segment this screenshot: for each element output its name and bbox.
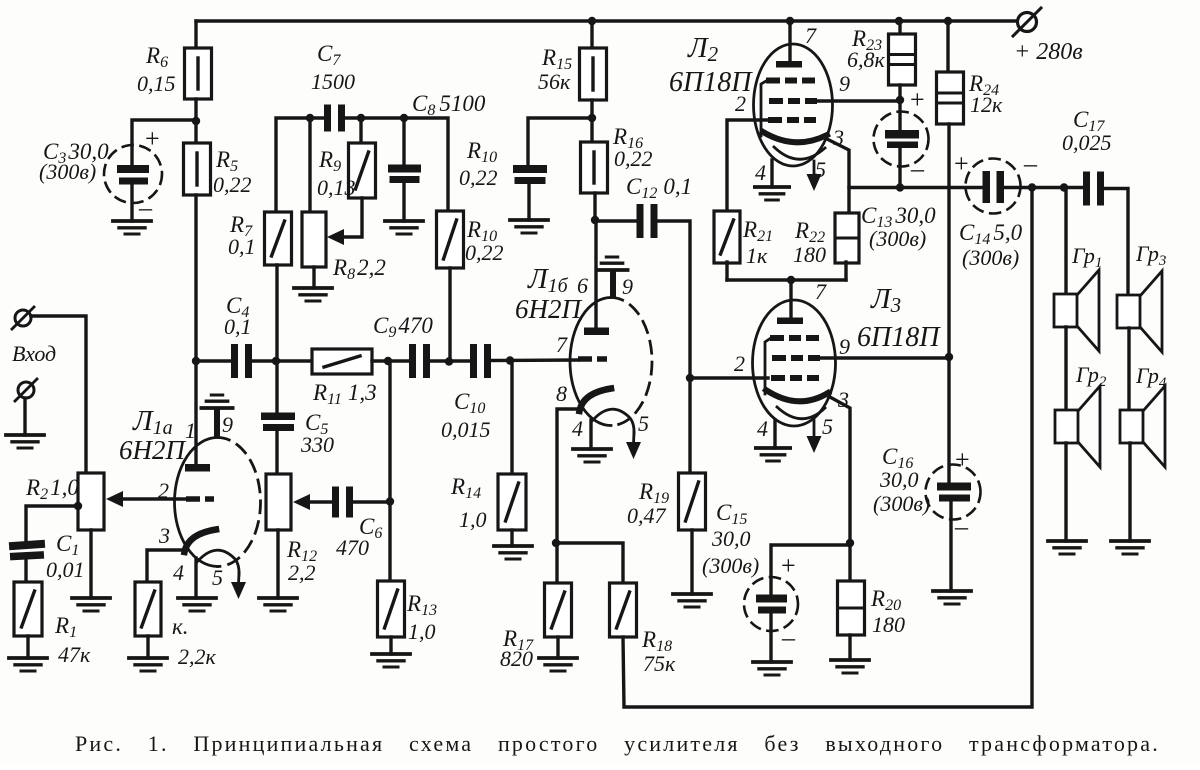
ground R19: [673, 594, 711, 607]
wire R3 to ground: [146, 636, 149, 658]
resistor R1: [14, 582, 42, 636]
capacitor C9: [409, 344, 430, 378]
ground C8: [385, 221, 423, 234]
L1b shield bar: [610, 271, 616, 298]
L1b heater arrow: [626, 432, 641, 459]
L3 heater: [777, 407, 825, 419]
svg-text:6П18П: 6П18П: [857, 322, 941, 353]
svg-text:75к: 75к: [643, 651, 676, 676]
L1b grid dashes: [578, 356, 607, 362]
wire node to R17: [555, 543, 558, 583]
svg-text:5: 5: [212, 565, 223, 590]
ground C16: [933, 591, 971, 604]
svg-text:3: 3: [837, 387, 849, 412]
L1b heater: [592, 409, 634, 434]
svg-text:0,1: 0,1: [228, 234, 256, 259]
wire R1 to ground: [26, 636, 29, 658]
resistor R24: [937, 72, 964, 124]
node rail R23: [895, 17, 903, 25]
svg-text:4: 4: [755, 160, 766, 185]
svg-text:4: 4: [173, 560, 184, 585]
wire L3 anode bus: [727, 278, 846, 281]
resistor R10a: [437, 211, 464, 268]
ground R8: [294, 288, 332, 301]
resistor R5: [184, 143, 211, 195]
wire L3 cathode to R20 node: [828, 396, 850, 544]
L3 grid g3 dashes: [770, 335, 819, 341]
svg-text:(300в): (300в): [869, 226, 926, 251]
resistor R7: [265, 212, 292, 265]
svg-text:2: 2: [734, 351, 745, 376]
arrow R2 wiper: [106, 491, 123, 507]
wire C8 to ground: [402, 183, 405, 221]
ground R12: [259, 598, 297, 611]
ground L1b shield: [596, 257, 627, 270]
wire node to R18: [556, 543, 623, 583]
wire rail to R24: [946, 21, 949, 73]
svg-text:7: 7: [815, 279, 827, 304]
svg-text:820: 820: [500, 646, 533, 671]
svg-text:0,22: 0,22: [213, 172, 252, 197]
wire C10 to L1b grid: [491, 358, 578, 362]
ground R1: [9, 658, 47, 671]
wire R9 to R8 wiper: [344, 198, 362, 237]
svg-text:7: 7: [556, 332, 568, 357]
resistor R14: [498, 474, 526, 530]
ground R17: [539, 658, 577, 671]
resistor R3: [135, 582, 161, 636]
wire R14 to ground: [510, 530, 513, 546]
wire L2 grid to R21: [727, 120, 768, 212]
wire Gr1 drop: [1064, 188, 1067, 294]
capacitor C4: [231, 344, 252, 378]
wire rail to R23: [898, 21, 901, 35]
svg-text:5: 5: [638, 411, 649, 436]
L3 grid g1 dashes: [771, 375, 819, 381]
svg-text:+: +: [781, 551, 796, 580]
node R2 left tap: [74, 502, 82, 510]
L2 grid g2 dashes: [769, 98, 817, 104]
wire R6 to R5: [194, 99, 197, 144]
wire to L3 grid: [690, 376, 768, 379]
svg-text:C85100: C85100: [412, 91, 486, 119]
svg-text:6Н2П: 6Н2П: [119, 435, 186, 465]
wire R2 to ground: [89, 530, 92, 598]
L1a heater: [197, 550, 239, 575]
wire Gr2 to ground: [1064, 443, 1067, 541]
L1a pin 4 lead: [194, 558, 197, 598]
svg-text:–: –: [954, 512, 969, 541]
svg-text:8: 8: [556, 381, 567, 406]
resistor R13: [378, 581, 405, 637]
capacitor C16 circle: [926, 465, 981, 520]
svg-text:–: –: [1023, 149, 1038, 178]
svg-text:4: 4: [757, 416, 768, 441]
capacitor C14 circle: [966, 159, 1021, 214]
svg-text:1к: 1к: [746, 243, 768, 268]
node main wire tap: [192, 357, 200, 365]
wire node to R20: [848, 543, 851, 582]
wire anode node to C12: [595, 219, 638, 222]
wire feedback bottom: [623, 188, 1032, 707]
svg-text:+: +: [954, 149, 969, 178]
wire C13 to output: [898, 148, 901, 188]
svg-text:(300в): (300в): [702, 553, 759, 578]
svg-text:0,15: 0,15: [137, 71, 176, 96]
L1a anode: [185, 464, 210, 472]
wire C9 to C10: [430, 359, 472, 362]
resistor R19: [679, 473, 706, 530]
svg-text:Вход: Вход: [12, 341, 56, 366]
svg-text:C9470: C9470: [373, 313, 433, 341]
svg-text:0,22: 0,22: [465, 240, 504, 265]
wire R12 to ground: [276, 530, 279, 598]
svg-text:0,025: 0,025: [1062, 130, 1112, 155]
capacitor C6: [332, 487, 353, 518]
wire screen node to C16: [947, 358, 950, 484]
wire +280V top rail: [196, 19, 1017, 22]
svg-text:0,13: 0,13: [317, 175, 356, 200]
svg-text:3: 3: [832, 125, 844, 150]
capacitor C10: [470, 344, 491, 378]
svg-text:+: +: [145, 124, 160, 153]
ground input: [6, 435, 44, 448]
resistor R20: [838, 581, 865, 635]
svg-text:Рис. 1. Принципиальная схема: Рис. 1. Принципиальная схема простого ус…: [75, 731, 1160, 756]
L1a cathode: [185, 530, 217, 553]
node L1b anode: [591, 216, 599, 224]
speaker Gr4: [1120, 386, 1165, 467]
node R8 tap: [306, 114, 314, 122]
wire C12 to L3 grid line: [657, 221, 690, 473]
wire L3 screen to R24 line: [820, 356, 949, 359]
wire input to R2: [31, 316, 86, 474]
resistor R8 (preset): [302, 212, 326, 267]
L1a grid dashes: [186, 496, 214, 502]
capacitor C5 plates: [261, 413, 295, 432]
wire R16 to anode node: [593, 193, 596, 222]
resistor R6: [185, 48, 212, 99]
resistor R15: [580, 48, 607, 100]
wire R13 to ground: [389, 637, 392, 654]
ground Gr4: [1111, 541, 1149, 554]
node R11/R13: [384, 357, 392, 365]
wire R10a to main wire: [448, 268, 451, 362]
resistor R16: [581, 142, 608, 193]
wire C1 to R1: [24, 559, 27, 583]
wire C15 to ground: [769, 614, 772, 662]
wire C17 to Gr3: [1104, 189, 1128, 296]
wire C16 to ground: [949, 502, 952, 591]
capacitor C3 circle: [104, 145, 162, 203]
L3 anode: [777, 318, 803, 325]
svg-text:30,0: 30,0: [879, 467, 919, 492]
wire C6 to R13 line: [352, 500, 390, 503]
resistor R18: [610, 583, 637, 637]
capacitor C12: [637, 204, 658, 238]
svg-text:–: –: [138, 193, 153, 222]
wire C6 to R12 wiper: [310, 500, 333, 503]
wire terminal 2 to ground: [23, 398, 26, 435]
capacitor C14 plates: [983, 171, 1005, 203]
wire R24 to L3 screen node: [947, 124, 950, 358]
L1a heater arrow: [231, 573, 246, 599]
svg-text:180: 180: [793, 242, 826, 267]
node output C13: [896, 183, 904, 191]
capacitor C8 plates: [388, 165, 421, 184]
node C8 tap: [400, 114, 408, 122]
wire node to C5: [275, 361, 278, 414]
wire R15 to R16: [590, 100, 593, 143]
node L1b cathode/R17/R18: [552, 539, 560, 547]
wire top rail to R6: [194, 21, 197, 49]
wire L2 cathode to C14: [849, 186, 984, 189]
tube L1b envelope: [570, 298, 652, 426]
svg-text:2,2: 2,2: [288, 560, 316, 585]
capacitor C1: [9, 540, 45, 561]
ground R3: [129, 658, 167, 671]
tube L2 envelope: [754, 44, 833, 166]
wire R23 to C13: [898, 85, 901, 131]
wire C14 to C17: [1004, 186, 1084, 189]
wire L2 screen to R23 node: [816, 99, 899, 102]
svg-text:6Н2П: 6Н2П: [515, 294, 582, 324]
wire R9 top lead: [359, 118, 362, 144]
wire R15 node to bypass cap: [528, 118, 592, 166]
node rail L2 anode: [786, 17, 794, 25]
potentiometer R2: [78, 473, 104, 530]
wire R2 to C1: [26, 506, 78, 542]
wire L1a cathode lead: [147, 550, 185, 582]
svg-text:1,0: 1,0: [459, 507, 487, 532]
wire C4 to R11: [252, 359, 313, 362]
svg-text:0,47: 0,47: [627, 503, 667, 528]
svg-text:–: –: [910, 154, 925, 183]
capacitor C13 circle: [874, 112, 929, 167]
L1b cathode: [580, 389, 612, 412]
L1b pin 4 lead: [589, 420, 592, 449]
resistor R11: [312, 349, 372, 374]
wire R22 to bus: [844, 262, 847, 280]
wire R19 to ground: [690, 530, 693, 594]
ground R2: [72, 598, 110, 611]
node R6/R5/C3: [192, 117, 200, 125]
svg-text:0,1: 0,1: [224, 314, 252, 339]
svg-text:1: 1: [185, 418, 196, 443]
wire anode node to C4: [196, 359, 232, 362]
svg-text:(300в): (300в): [873, 491, 930, 516]
svg-text:2: 2: [735, 91, 746, 116]
wire R8 top lead: [308, 118, 311, 212]
ground Gr2: [1048, 541, 1086, 554]
resistor R9: [349, 143, 376, 198]
ground R20: [831, 660, 869, 673]
wire R11 to C9: [372, 359, 411, 362]
wire anode node to L1b anode: [594, 222, 597, 329]
svg-text:180: 180: [872, 612, 905, 637]
svg-text:(300в): (300в): [962, 245, 1019, 270]
svg-text:9: 9: [622, 274, 633, 299]
L2 heater arrow: [807, 161, 822, 191]
wire R5 to L1a anode: [194, 195, 197, 464]
ground L1b pin4: [573, 449, 611, 462]
resistor R21: [714, 211, 740, 263]
capacitor C17: [1083, 172, 1104, 206]
resistor R23: [889, 34, 916, 85]
wire C15 to cathode node: [771, 545, 850, 596]
wire C3 to ground: [130, 184, 133, 221]
svg-text:0,22: 0,22: [614, 146, 653, 171]
wire Gr1 to Gr2: [1064, 327, 1067, 410]
svg-text:7: 7: [805, 23, 817, 48]
wire rail to R15: [590, 21, 593, 49]
node C6/R13: [386, 497, 394, 505]
svg-text:3: 3: [158, 523, 170, 548]
L1a shield bar: [214, 409, 220, 437]
ground bypass cap: [510, 220, 548, 233]
capacitor C15 circle: [744, 577, 798, 631]
wire feedback bus left: [276, 118, 325, 212]
wire L1a grid to R2 wiper: [112, 497, 186, 500]
L2 grid g3 dashes: [766, 78, 815, 84]
wire R21 to L3 anode bus: [725, 262, 728, 280]
svg-text:9: 9: [222, 412, 233, 437]
wire R11 node to R13: [388, 361, 391, 582]
capacitor C16 plates: [937, 483, 971, 502]
tube L1a envelope: [174, 438, 260, 567]
speaker Gr3: [1117, 271, 1162, 352]
svg-text:12к: 12к: [970, 92, 1003, 117]
resistor R22: [835, 213, 859, 263]
L2 heater: [774, 147, 825, 159]
input terminal 1: [12, 307, 34, 329]
svg-text:56к: 56к: [538, 69, 571, 94]
ground L1a pin4: [178, 598, 216, 611]
wire rail to L2 anode: [788, 21, 791, 62]
wire Gr4 to ground: [1128, 443, 1131, 541]
svg-text:9: 9: [839, 334, 850, 359]
ground C3: [113, 221, 151, 234]
wire Gr3 to Gr4: [1127, 328, 1130, 410]
wire feedback bus right: [345, 118, 448, 211]
wire node to R14: [510, 360, 513, 475]
input terminal 2: [15, 379, 37, 401]
potentiometer R12: [266, 474, 291, 530]
node C4/R7/C5: [272, 357, 280, 365]
L2 pin 4 lead: [770, 160, 773, 187]
node R9 tap: [357, 114, 365, 122]
svg-text:5: 5: [822, 414, 833, 439]
ground L3 pin4: [756, 448, 790, 461]
capacitor C7: [324, 105, 345, 132]
capacitor C3 plates: [117, 165, 149, 185]
L3 g3-cathode strap: [765, 338, 771, 394]
L3 cathode: [766, 390, 828, 401]
svg-text:9: 9: [839, 71, 850, 96]
wire R20 to ground: [848, 635, 851, 660]
ground L2 pin4: [755, 187, 789, 200]
svg-text:0,015: 0,015: [441, 417, 491, 442]
svg-text:47к: 47к: [58, 642, 91, 667]
svg-text:1,0: 1,0: [408, 619, 436, 644]
svg-text:2,2к: 2,2к: [178, 644, 217, 669]
node R23/C13/screen: [896, 96, 904, 104]
node feedback tap: [1028, 183, 1036, 191]
svg-text:6,8к: 6,8к: [847, 47, 886, 72]
L2 grid g1 dashes: [768, 117, 816, 123]
speaker Gr1: [1054, 270, 1099, 351]
wire C5 to R12: [275, 431, 278, 475]
svg-text:6: 6: [577, 273, 588, 298]
wire bus to L3 anode: [789, 280, 792, 319]
L2 g3-cathode strap: [761, 81, 767, 137]
arrow R12 wiper: [293, 494, 310, 510]
resistor R17: [545, 583, 572, 637]
node top rail R15: [588, 17, 596, 25]
svg-text:+ 280в: + 280в: [1014, 39, 1083, 65]
node cathode/R20: [846, 539, 854, 547]
wire L1b cathode lead: [557, 409, 580, 544]
svg-text:–: –: [781, 623, 796, 652]
wire R8 to ground: [312, 267, 315, 288]
arrow R8 wiper: [327, 229, 344, 245]
svg-text:470: 470: [336, 535, 369, 560]
wire bypass cap to ground: [527, 184, 530, 220]
svg-text:R82,2: R82,2: [332, 255, 386, 283]
ground C15: [753, 662, 791, 675]
terminal +280V: [1013, 8, 1041, 36]
ground R13: [372, 654, 410, 667]
L3 grid g2 dashes: [772, 355, 820, 361]
L2 anode: [776, 61, 802, 68]
node Gr1 tap: [1060, 183, 1068, 191]
svg-text:30,0: 30,0: [711, 526, 751, 551]
svg-text:(300в): (300в): [39, 159, 96, 184]
svg-text:330: 330: [300, 432, 334, 457]
svg-text:1500: 1500: [311, 69, 355, 94]
svg-text:0,01: 0,01: [46, 557, 85, 582]
L1b anode: [584, 328, 609, 336]
node L3 screen: [945, 353, 953, 361]
svg-text:к.: к.: [172, 614, 189, 639]
svg-text:0,22: 0,22: [459, 165, 498, 190]
svg-text:4: 4: [572, 416, 583, 441]
node L3 grid tap: [686, 374, 694, 382]
L2 cathode: [763, 132, 827, 142]
L3 heater arrow: [807, 419, 822, 453]
ground L1a shield: [201, 395, 232, 408]
wire R7 to main wire: [275, 265, 278, 361]
capacitor C11 plates: [513, 165, 547, 184]
ground R14: [494, 546, 532, 559]
svg-text:+: +: [910, 85, 925, 114]
tube L3 envelope: [753, 300, 836, 426]
svg-text:5: 5: [815, 157, 826, 182]
speaker Gr2: [1055, 386, 1100, 467]
L3 pin 4 lead: [773, 420, 776, 448]
wire C8 top lead: [402, 118, 405, 166]
node C9/C10/R10a: [445, 357, 453, 365]
capacitor C15 plates: [756, 595, 787, 614]
node rail R24: [944, 17, 952, 25]
wire L2 cathode to output: [827, 139, 849, 214]
capacitor C13 plates: [885, 130, 919, 148]
svg-text:R21,0: R21,0: [25, 475, 79, 503]
node C10/R14: [506, 356, 514, 364]
node R15/R16: [588, 114, 596, 122]
wire to C3: [132, 120, 196, 166]
wire R17 to ground: [556, 637, 559, 658]
